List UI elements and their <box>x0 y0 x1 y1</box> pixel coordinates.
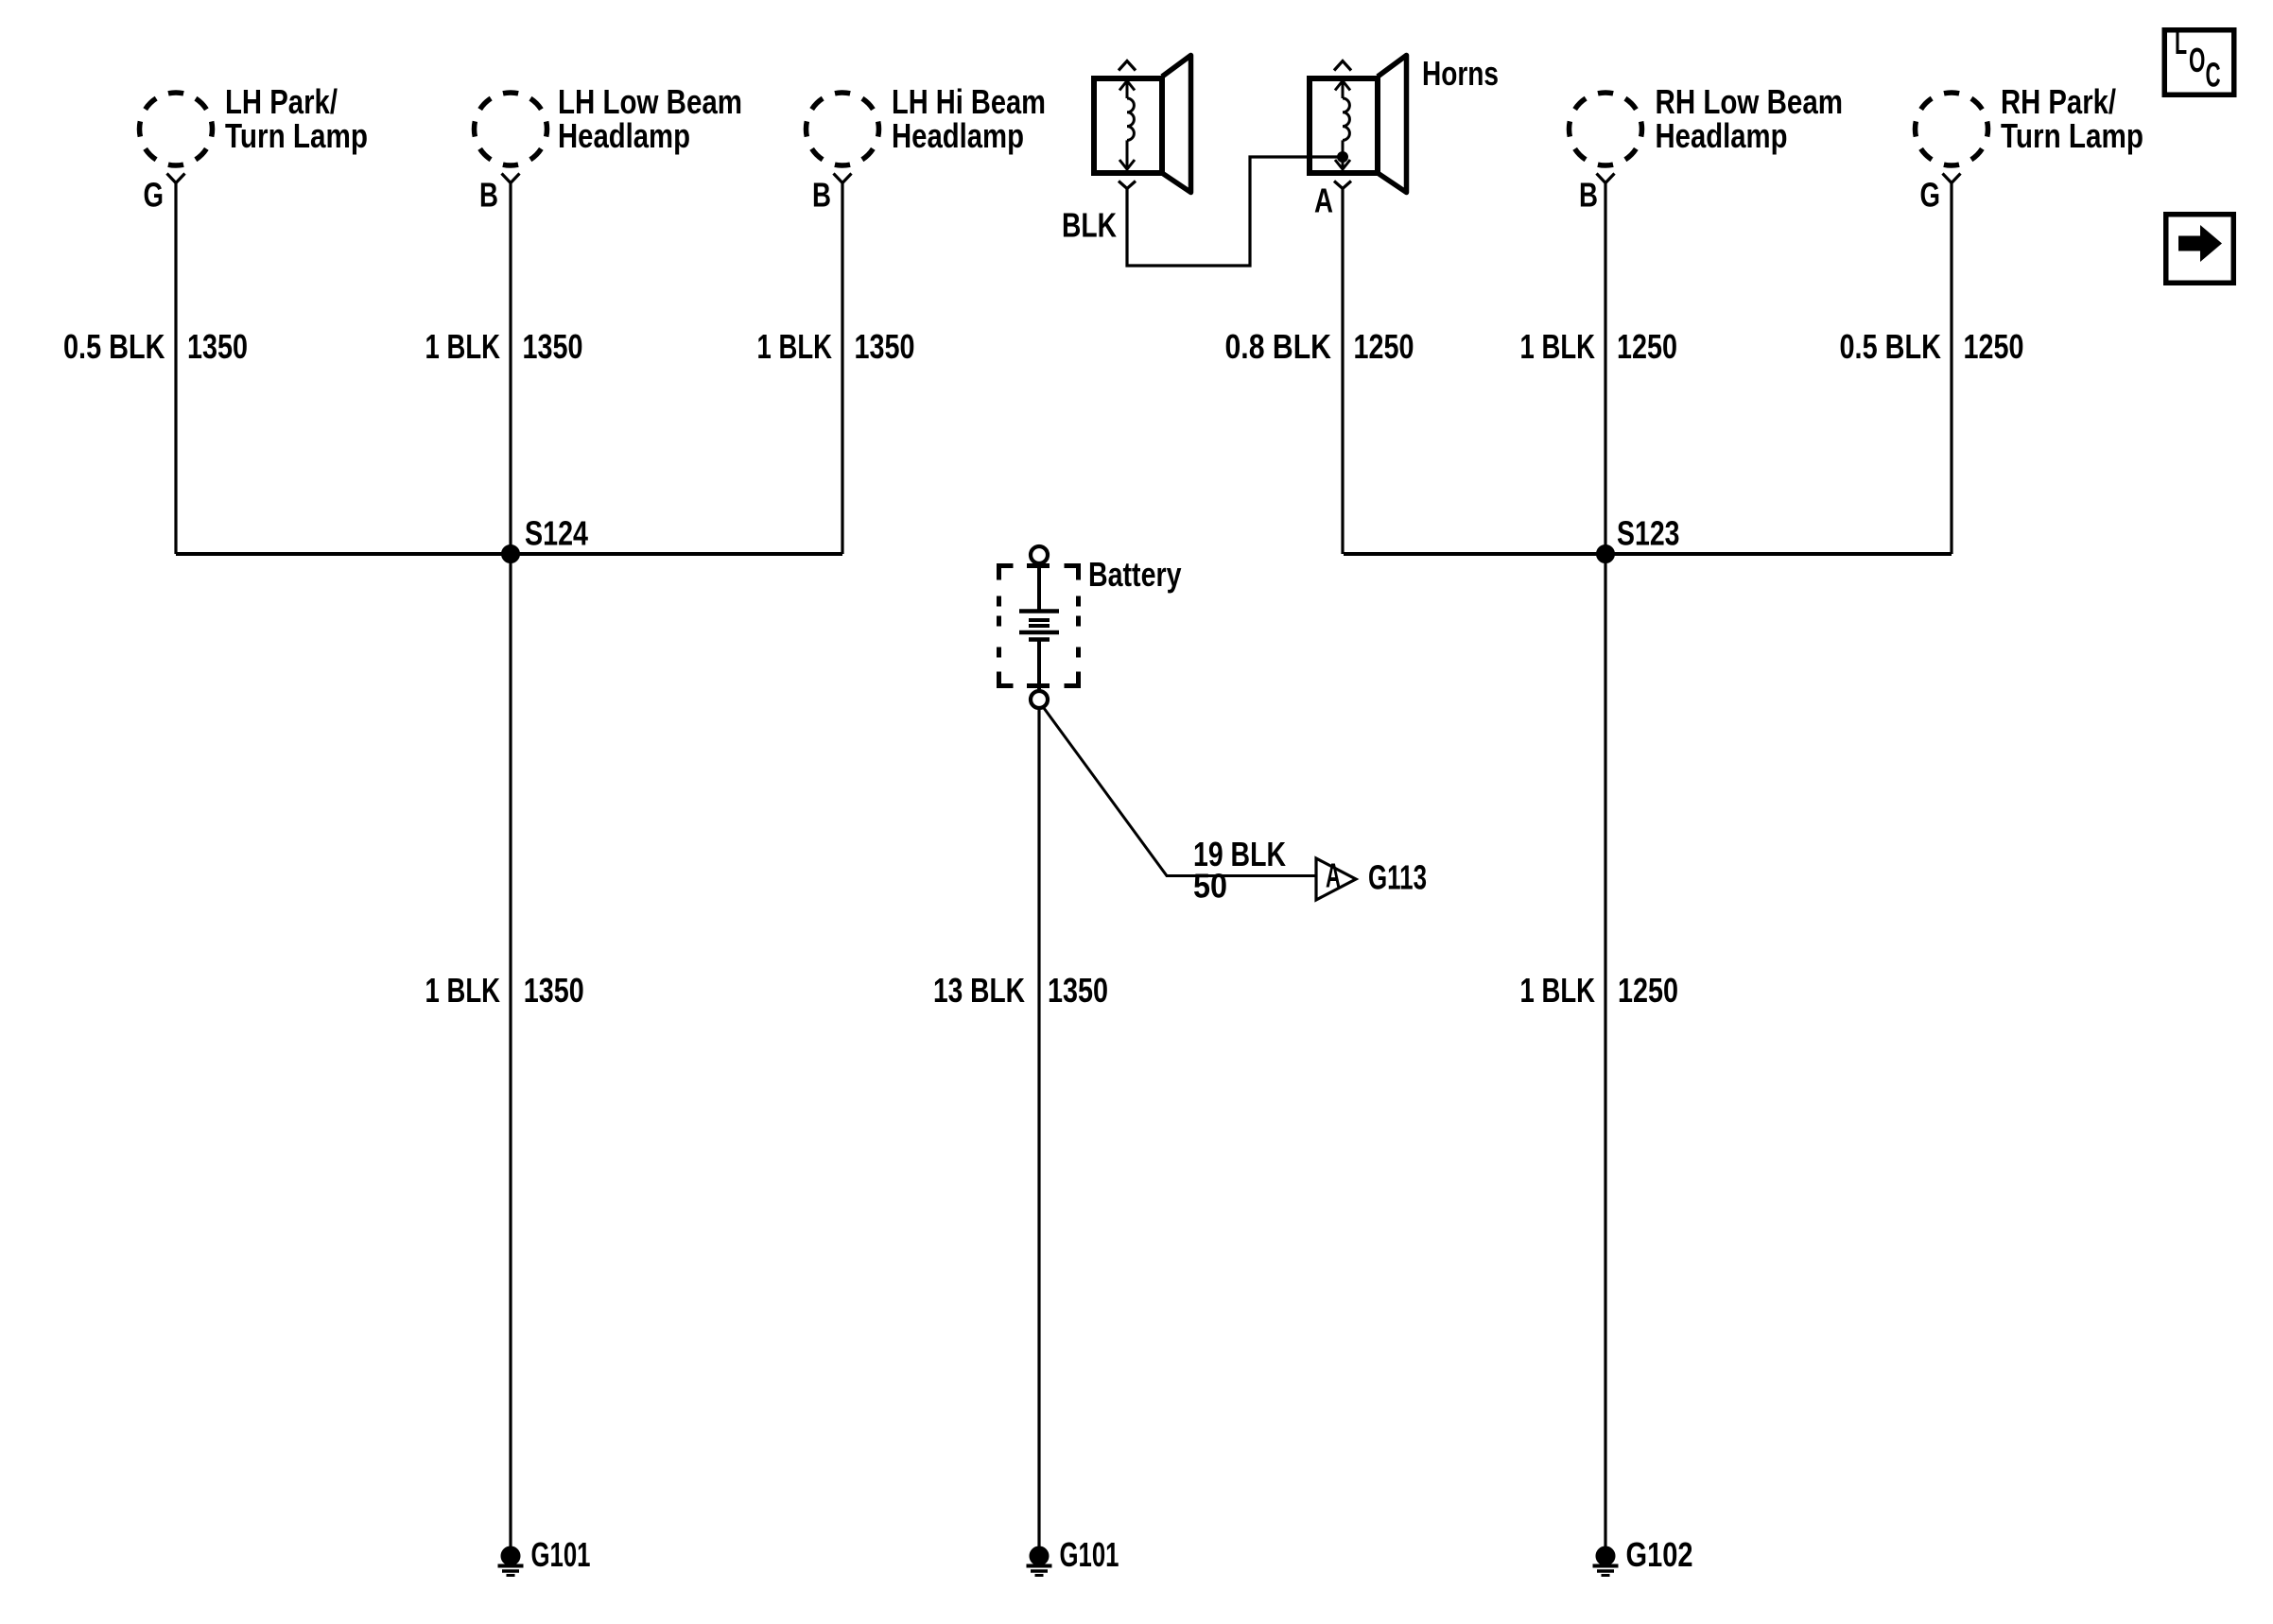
svg-text:A: A <box>1326 856 1341 895</box>
svg-text:Battery: Battery <box>1088 555 1182 594</box>
wire branch battery to G113 <box>1044 708 1315 876</box>
svg-text:G102: G102 <box>1626 1535 1693 1574</box>
svg-text:1 BLK: 1 BLK <box>425 971 501 1010</box>
LH Hi Beam Headlamp <box>807 93 879 165</box>
LH Low Beam Headlamp <box>475 93 547 165</box>
svg-text:L: L <box>2175 23 2187 61</box>
svg-text:LH Low Beam: LH Low Beam <box>558 82 742 121</box>
svg-text:1350: 1350 <box>524 971 584 1010</box>
svg-text:S123: S123 <box>1617 514 1680 553</box>
battery dashed box <box>999 566 1014 580</box>
LH Park/Turn Lamp <box>140 93 213 165</box>
svg-text:LH Park/: LH Park/ <box>225 82 338 121</box>
svg-text:Horns: Horns <box>1422 54 1499 93</box>
svg-text:13 BLK: 13 BLK <box>933 971 1025 1010</box>
svg-text:G: G <box>1920 176 1941 215</box>
ground reference triangle G113 <box>1316 858 1356 900</box>
wire from LH Low Beam Headlamp B down <box>509 183 512 1549</box>
svg-text:1250: 1250 <box>1354 327 1414 366</box>
svg-text:C: C <box>2206 56 2221 95</box>
svg-text:G113: G113 <box>1368 858 1427 897</box>
wire battery negative down to G101 <box>1037 710 1040 1548</box>
svg-text:A: A <box>1314 181 1333 220</box>
arrow continuation box <box>2166 215 2234 284</box>
svg-text:G: G <box>144 176 165 215</box>
svg-text:1 BLK: 1 BLK <box>1520 327 1596 366</box>
wire from LH Park/Turn Lamp G down <box>174 183 177 555</box>
svg-text:1 BLK: 1 BLK <box>757 327 833 366</box>
svg-text:1350: 1350 <box>1048 971 1108 1010</box>
svg-text:1350: 1350 <box>855 327 915 366</box>
svg-text:RH Low Beam: RH Low Beam <box>1656 82 1844 121</box>
node S123 junction dot <box>1597 545 1615 563</box>
svg-text:1250: 1250 <box>1617 327 1677 366</box>
node S124 junction dot <box>502 545 520 563</box>
svg-text:BLK: BLK <box>1062 206 1117 245</box>
svg-text:S124: S124 <box>525 514 588 553</box>
battery symbol <box>1031 546 1048 563</box>
svg-text:LH Hi Beam: LH Hi Beam <box>892 82 1046 121</box>
wire horn 2 pin A down to S123 <box>1341 189 1344 555</box>
wire from RH Low Beam Headlamp B down <box>1604 183 1606 1549</box>
wire from LH Hi Beam Headlamp B down <box>841 183 843 555</box>
svg-text:B: B <box>812 176 831 215</box>
wire horn1 to horn2 link <box>1127 157 1343 266</box>
wire S124 horizontal bus <box>176 552 842 556</box>
horn 2 (right) <box>1310 78 1378 173</box>
svg-text:Turn Lamp: Turn Lamp <box>225 116 368 155</box>
ground G102 (RH) <box>1596 1546 1615 1565</box>
svg-text:RH Park/: RH Park/ <box>2001 82 2116 121</box>
RH Low Beam Headlamp <box>1570 93 1642 165</box>
svg-text:B: B <box>479 176 498 215</box>
ground G101 (LH) <box>501 1546 520 1565</box>
svg-text:Headlamp: Headlamp <box>1656 116 1788 155</box>
svg-text:Headlamp: Headlamp <box>892 116 1024 155</box>
horn 1 (left) <box>1094 78 1162 173</box>
svg-text:B: B <box>1579 176 1598 215</box>
svg-text:0.8 BLK: 0.8 BLK <box>1225 327 1332 366</box>
svg-text:1250: 1250 <box>1964 327 2024 366</box>
ground G101 (battery) <box>1030 1546 1049 1565</box>
svg-text:50: 50 <box>1193 867 1227 906</box>
svg-text:0.5 BLK: 0.5 BLK <box>1840 327 1942 366</box>
svg-text:1350: 1350 <box>187 327 248 366</box>
svg-text:G101: G101 <box>531 1535 591 1574</box>
wire from RH Park/Turn Lamp G down <box>1950 183 1952 555</box>
svg-text:1350: 1350 <box>523 327 583 366</box>
svg-text:Turn Lamp: Turn Lamp <box>2001 116 2143 155</box>
svg-text:Headlamp: Headlamp <box>558 116 690 155</box>
RH Park/Turn Lamp <box>1916 93 1988 165</box>
LOC reference box <box>2164 30 2234 95</box>
wire S123 horizontal bus <box>1344 552 1952 556</box>
svg-text:G101: G101 <box>1060 1535 1119 1574</box>
svg-text:1 BLK: 1 BLK <box>425 327 501 366</box>
svg-text:1250: 1250 <box>1618 971 1678 1010</box>
svg-text:1 BLK: 1 BLK <box>1520 971 1596 1010</box>
svg-text:O: O <box>2189 41 2205 79</box>
svg-text:0.5 BLK: 0.5 BLK <box>63 327 165 366</box>
